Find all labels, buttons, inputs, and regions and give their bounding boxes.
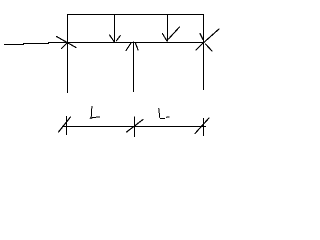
dimension tick middle <box>127 117 143 137</box>
left vertical member (box left edge extended below beam) <box>67 14 69 93</box>
right support junction cross marks <box>196 29 219 51</box>
reaction arrow shaft (middle, below beam) <box>133 42 135 93</box>
left support junction arrowhead / cross marks <box>57 37 77 49</box>
dimension line <box>62 126 206 128</box>
right vertical member (box right edge extended below beam) <box>203 14 205 90</box>
load arrow 2 head <box>162 27 179 41</box>
load arrow 1 shaft <box>114 14 116 43</box>
label L2 (right span) <box>159 108 170 118</box>
dimension tick right <box>195 118 209 136</box>
dimension tick left <box>59 116 71 135</box>
label L1 (left span) <box>90 106 100 119</box>
distributed load box top edge <box>67 14 204 16</box>
load arrow 1 head <box>110 35 121 42</box>
load arrow 2 shaft <box>167 14 169 42</box>
reaction arrow head (pointing up at beam) <box>126 43 138 51</box>
beam line with incoming left force line <box>4 43 204 45</box>
